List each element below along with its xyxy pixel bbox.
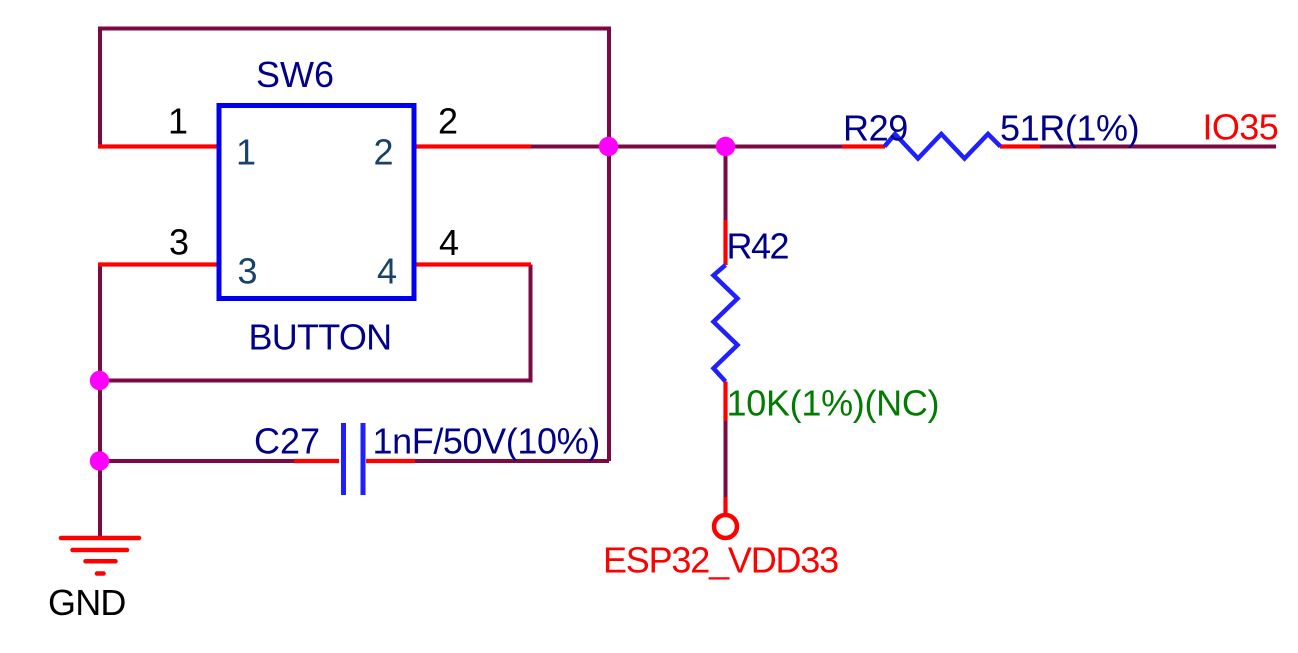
resistor R42 zigzag [714,265,738,382]
junction dot at capacitor wire [90,451,109,470]
svg-text:BUTTON: BUTTON [249,317,392,358]
svg-text:C27: C27 [254,421,320,462]
svg-text:4: 4 [439,222,458,263]
svg-text:GND: GND [48,582,126,623]
resistor R29 zigzag [885,134,1001,159]
svg-text:R29: R29 [843,108,908,149]
ground symbol [61,538,139,574]
wire: pin2 net across to R29 [530,145,843,149]
wire: capacitor horizontal left [100,459,296,463]
svg-text:1: 1 [168,101,187,142]
R42 top red pin [723,220,727,265]
junction dot at R42 top [716,137,735,156]
R29 right red pin [1000,144,1040,148]
svg-text:1: 1 [236,132,255,173]
capacitor C27 plates [341,423,346,495]
junction dot at button loop [90,371,109,390]
R42 bottom red pin [723,382,727,422]
wire: BUTTON bottom loop [100,265,531,381]
wire: R42 top segment [724,147,728,223]
svg-text:4: 4 [377,251,396,292]
wire: R42 bottom segment [724,420,728,498]
wire: top loop from pin1 node up, across, down right side to capacitor wire [100,29,609,462]
svg-text:3: 3 [238,251,257,292]
ESP32_VDD33 red stub [723,497,727,515]
svg-text:ESP32_VDD33: ESP32_VDD33 [603,540,838,581]
pin 1 red wire [98,144,219,148]
svg-text:SW6: SW6 [256,54,334,95]
svg-text:2: 2 [438,101,457,142]
wire: capacitor horizontal right [413,459,609,463]
power node circle ESP32_VDD33 [714,515,737,538]
R29 left red pin [842,144,885,148]
pin 4 red wire [414,262,531,266]
svg-text:10K(1%)(NC): 10K(1%)(NC) [727,383,940,424]
wire: left vertical from pin3 down to GND [98,263,102,536]
C27 right red pin [366,459,415,463]
pin 2 red wire [414,144,531,148]
wire: R29 to IO35 [1039,145,1276,149]
svg-text:51R(1%): 51R(1%) [1000,108,1139,149]
svg-text:1nF/50V(10%): 1nF/50V(10%) [373,421,600,462]
pin 3 red wire [98,262,219,266]
svg-text:R42: R42 [727,226,789,267]
switch SW6 body [219,106,414,299]
svg-text:3: 3 [169,222,188,263]
svg-text:2: 2 [374,132,393,173]
C27 left red pin [294,459,339,463]
svg-text:IO35: IO35 [1203,107,1279,148]
junction dot at pin2/vertical [599,137,618,156]
